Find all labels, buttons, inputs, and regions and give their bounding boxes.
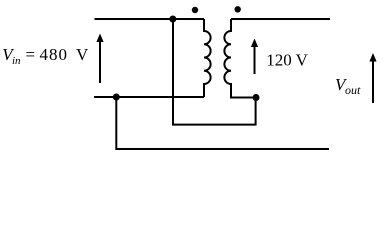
polarity dot secondary [235, 6, 241, 12]
wire bottom-left (input neutral to primary bottom) [94, 96, 204, 98]
arrow 120 V reference (up) [254, 47, 256, 75]
svg-text:V: V [76, 45, 89, 64]
svg-text:=: = [26, 45, 36, 64]
node C junction dot (secondary bottom) [253, 94, 260, 101]
wire from node A down, across, up to node C (series connection) [173, 19, 256, 125]
svg-text:out: out [345, 83, 361, 97]
transformer secondary winding (120 V side) [224, 19, 252, 98]
wire from node B down and along bottom to output low terminal [116, 97, 329, 149]
node A junction dot on top wire [169, 16, 176, 23]
arrow Vin reference (up) [99, 41, 101, 83]
node B junction dot on bottom-left wire [113, 94, 120, 101]
arrow Vout reference (up) [372, 61, 374, 103]
transformer primary winding (480 V side) [204, 19, 211, 97]
svg-text:480: 480 [40, 45, 69, 64]
polarity dot primary [192, 7, 198, 13]
wire top-left (input hot to primary top) [95, 18, 205, 20]
svg-text:in: in [12, 55, 21, 67]
wire top-right (secondary top to output high terminal) [231, 18, 330, 20]
svg-text:120 V: 120 V [266, 51, 308, 70]
